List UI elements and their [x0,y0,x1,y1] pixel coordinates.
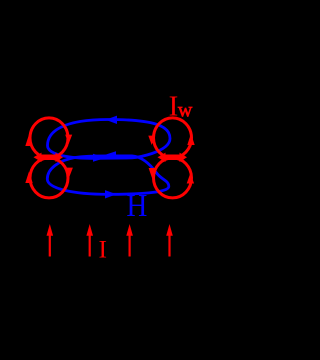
left waist bar with arrows [40,155,57,161]
current arrow 2 [86,224,93,257]
H arrowhead mid right-pointing [93,154,106,162]
I_w arrow top-right circle right (up) [187,134,194,146]
H arrowhead mid left-pointing [105,151,117,159]
svg-text:I: I [99,235,108,264]
winding turn top-right [154,118,192,158]
winding turn top-left [30,118,68,158]
current arrow 4 [166,224,173,257]
svg-text:H: H [126,187,147,223]
I_w arrow bottom-left circle right (down) [66,168,73,177]
I_w arrow top-left circle left (up) [25,135,32,147]
winding turn bottom-right [154,158,192,198]
I_w arrow top-left circle right (down) [65,135,72,144]
winding turn bottom-left [30,158,68,198]
current arrow 1 [47,224,54,257]
H arrowhead bottom (points right) [105,190,117,198]
right waist bar with arrows [164,155,181,161]
field line H top loop [48,120,171,159]
svg-text:I: I [169,91,179,123]
H arrowhead top (points left) [106,116,118,124]
I_w arrow bottom-left circle left (up) [25,172,32,184]
field line H bottom loop [47,156,169,194]
svg-text:w: w [178,99,193,121]
I_w arrow top-right circle left (down) [148,136,155,145]
I_w arrow bottom-right circle left (down) [149,168,156,178]
current arrow 3 [126,224,133,257]
I_w arrow bottom-right circle right (up) [187,173,194,184]
